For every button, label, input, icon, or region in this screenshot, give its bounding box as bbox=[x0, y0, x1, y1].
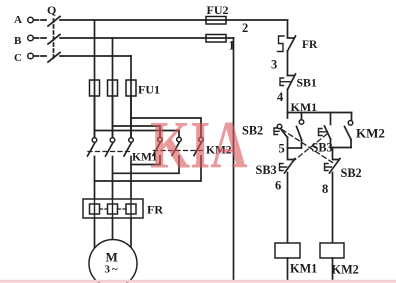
wire below KM1 pole B bbox=[112, 157, 114, 200]
svg-text:SB1: SB1 bbox=[297, 76, 317, 90]
contactor KM1 aux contact bbox=[297, 113, 304, 149]
node 2 bbox=[242, 21, 248, 35]
svg-text:~: ~ bbox=[112, 264, 118, 276]
wire below KM1 pole A bbox=[94, 157, 96, 200]
label KM1 aux bbox=[291, 100, 318, 114]
wire FR to motor V bbox=[112, 218, 114, 240]
wire below FU1 pole C bbox=[130, 96, 132, 137]
wire drop phase C bbox=[130, 56, 132, 137]
svg-text:KIA: KIA bbox=[150, 108, 248, 183]
svg-text:2: 2 bbox=[242, 21, 248, 35]
svg-text:A: A bbox=[14, 14, 22, 26]
contactor KM2 aux contact bbox=[345, 113, 385, 148]
svg-text:FU1: FU1 bbox=[138, 83, 160, 97]
terminal A bbox=[14, 14, 46, 26]
pushbutton SB2 NC (interlock) bbox=[325, 148, 362, 181]
contactor KM2 main contacts bbox=[153, 137, 232, 156]
svg-text:Q: Q bbox=[47, 3, 56, 17]
svg-text:KM1: KM1 bbox=[290, 262, 317, 276]
wire KM2 pole3 to node A bbox=[95, 156, 202, 181]
svg-text:FU2: FU2 bbox=[207, 3, 229, 17]
motor M bbox=[89, 240, 137, 283]
FR NC contact (control) bbox=[278, 36, 319, 52]
svg-text:4: 4 bbox=[277, 90, 284, 104]
wire node 3 segment bbox=[271, 51, 288, 76]
svg-text:M: M bbox=[106, 250, 118, 265]
terminal C bbox=[14, 52, 46, 64]
svg-text:SB2: SB2 bbox=[341, 166, 362, 180]
wire below FU1 pole B bbox=[112, 96, 114, 137]
svg-text:KM2: KM2 bbox=[332, 263, 359, 277]
wire KM2 pole2 to node B bbox=[113, 156, 180, 173]
wire rail 2 (control phase rail) bbox=[287, 20, 289, 38]
pushbutton SB3 NC (interlock) bbox=[256, 148, 296, 177]
wire node 6 segment bbox=[275, 173, 288, 244]
wire node 8 segment bbox=[322, 173, 333, 244]
wire rail 1 (right neutral rail) bbox=[233, 38, 235, 281]
fuse FU1 bbox=[90, 80, 161, 97]
coil KM1 bbox=[275, 243, 317, 281]
pushbutton SB1 (NC stop) bbox=[280, 74, 317, 90]
svg-text:FR: FR bbox=[147, 203, 163, 217]
svg-text:3: 3 bbox=[271, 58, 277, 72]
switch Q bbox=[47, 3, 60, 62]
watermark bottom band bbox=[0, 280, 396, 283]
wire control split top bbox=[288, 112, 352, 114]
wire FR to motor W bbox=[130, 218, 132, 248]
pushbutton SB2 NO (start fwd) bbox=[242, 113, 288, 149]
wire node 8 top bbox=[331, 147, 352, 149]
svg-text:8: 8 bbox=[322, 182, 328, 196]
svg-text:5: 5 bbox=[279, 142, 285, 156]
wire FR to motor U bbox=[94, 218, 96, 249]
watermark KIA bbox=[150, 108, 248, 183]
fuse FU2 (lower) bbox=[206, 35, 226, 43]
svg-text:6: 6 bbox=[275, 179, 281, 193]
svg-text:B: B bbox=[14, 35, 22, 47]
svg-text:3: 3 bbox=[105, 264, 111, 276]
svg-text:SB3: SB3 bbox=[312, 141, 333, 155]
coil KM2 bbox=[320, 243, 359, 281]
contactor KM1 main contacts bbox=[88, 138, 158, 164]
svg-text:KM1: KM1 bbox=[291, 100, 318, 114]
node 1 bbox=[229, 39, 235, 53]
wire below KM1 pole C bbox=[130, 157, 132, 200]
mechanical link SB3 bbox=[292, 134, 328, 163]
svg-text:FR: FR bbox=[302, 39, 318, 51]
svg-text:C: C bbox=[14, 52, 22, 64]
pushbutton SB3 NO (start rev) bbox=[312, 113, 333, 155]
terminal B bbox=[14, 35, 46, 47]
wire node 4 segment bbox=[277, 90, 288, 113]
mechanical link SB2 bbox=[282, 130, 333, 163]
wire tap B to KM2 pole1 bbox=[113, 126, 161, 137]
thermal relay FR heaters bbox=[83, 199, 163, 218]
svg-text:KM2: KM2 bbox=[356, 126, 385, 141]
wire drop phase A bbox=[94, 20, 96, 137]
wire node 5 bbox=[279, 142, 302, 156]
svg-text:SB3: SB3 bbox=[256, 163, 277, 177]
wire drop phase B bbox=[112, 38, 114, 137]
wire phase B bbox=[60, 37, 234, 39]
wire tap C to KM2 pole3 bbox=[131, 118, 201, 137]
wire phase C bbox=[60, 55, 131, 57]
wire tap A to KM2 pole2 bbox=[95, 131, 180, 138]
wire KM2 pole1 to node C bbox=[131, 156, 160, 165]
fuse FU2 (upper) bbox=[206, 3, 229, 24]
wire below FU1 pole A bbox=[94, 96, 96, 137]
wire phase A bbox=[60, 19, 288, 21]
